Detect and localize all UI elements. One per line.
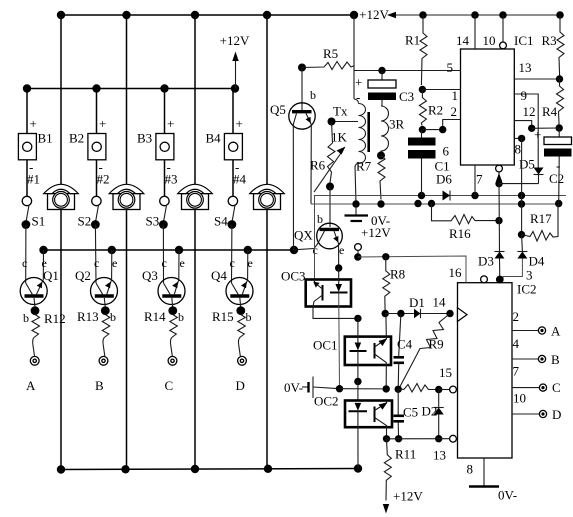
svg-text:B2: B2	[69, 131, 84, 146]
svg-text:+12V: +12V	[393, 489, 423, 504]
capacitor C3	[368, 71, 396, 107]
svg-text:Q4: Q4	[211, 268, 227, 283]
svg-text:B: B	[95, 378, 104, 393]
transistor Q4	[226, 225, 253, 316]
svg-text:10: 10	[513, 391, 526, 406]
svg-text:+12V: +12V	[361, 225, 391, 240]
battery B3 branch	[156, 89, 174, 197]
svg-text:R15: R15	[212, 309, 234, 324]
transistor Q2	[91, 225, 118, 316]
svg-text:R12: R12	[44, 311, 66, 326]
svg-text:Q2: Q2	[75, 268, 91, 283]
IC1 pin 12 wire	[514, 121, 535, 132]
capacitor C1	[408, 130, 436, 196]
transformer Tx primary	[355, 104, 366, 204]
telephone 3	[178, 184, 213, 209]
svg-text:b: b	[110, 310, 116, 324]
svg-text:R2: R2	[428, 103, 443, 118]
svg-text:Tx: Tx	[333, 104, 348, 119]
svg-text:4: 4	[513, 336, 520, 351]
svg-text:S1: S1	[32, 214, 46, 229]
capacitor C2	[544, 128, 572, 204]
resistor R5	[302, 62, 355, 70]
IC1 pin 13 wire	[514, 78, 559, 80]
svg-text:b: b	[317, 212, 323, 226]
svg-text:OC1: OC1	[313, 338, 338, 353]
svg-text:14: 14	[456, 33, 470, 48]
svg-text:R17: R17	[530, 211, 552, 226]
svg-text:Q5: Q5	[270, 102, 286, 117]
wire top rail right section with left arrow	[387, 11, 564, 19]
svg-text:B3: B3	[137, 131, 152, 146]
svg-text:D: D	[236, 378, 245, 393]
svg-text:S4: S4	[214, 214, 228, 229]
svg-text:6: 6	[443, 144, 450, 159]
svg-text:B4: B4	[206, 131, 222, 146]
svg-text:C2: C2	[549, 171, 564, 186]
switch S2	[91, 196, 101, 229]
transformer Tx secondary	[377, 106, 389, 160]
transistor Q3	[158, 225, 185, 316]
wire pin15 row	[340, 385, 402, 393]
transistor QX	[294, 187, 342, 272]
wire +12V drop to R5 junction and transformer	[354, 15, 359, 104]
svg-text:0V-: 0V-	[498, 488, 517, 503]
svg-text:5: 5	[447, 60, 454, 75]
telephone 4	[250, 184, 285, 209]
wire D1 row	[382, 310, 415, 317]
svg-text:c: c	[162, 256, 167, 270]
diode D5	[534, 168, 544, 184]
ground symbol on bus2	[345, 204, 369, 221]
diode D3	[495, 252, 505, 280]
svg-text:R16: R16	[449, 226, 471, 241]
svg-text:c: c	[22, 256, 27, 270]
battery B2 branch	[88, 89, 106, 197]
svg-text:b: b	[23, 311, 29, 325]
svg-text:13: 13	[519, 60, 532, 75]
switch S3	[159, 196, 169, 229]
svg-text:R9: R9	[429, 337, 444, 352]
battery B4 branch	[224, 89, 242, 197]
IC2 pin14 triangle	[458, 308, 468, 322]
terminal C	[168, 356, 177, 365]
svg-text:+: +	[30, 116, 37, 131]
resistor R13	[102, 315, 110, 357]
Tx centre tap	[328, 118, 359, 126]
battery B1 branch	[18, 89, 36, 197]
svg-text:QX: QX	[294, 228, 313, 243]
svg-text:0V-: 0V-	[284, 380, 303, 395]
svg-text:c: c	[230, 256, 235, 270]
switch S1	[22, 196, 32, 229]
wire emitter rail y250	[39, 246, 298, 254]
telephone 2 branch wire	[126, 15, 128, 185]
OC3 LED	[330, 268, 348, 389]
IC1 box	[461, 49, 515, 165]
resistor R14	[170, 315, 178, 357]
svg-text:R6: R6	[310, 158, 326, 173]
svg-text:b: b	[178, 310, 184, 324]
IC1 pin 9 wire	[514, 94, 538, 168]
telephone 4 branch wire	[266, 15, 268, 185]
optocoupler OC1 box	[345, 337, 391, 365]
svg-text:+: +	[99, 116, 106, 131]
svg-text:A: A	[551, 324, 561, 339]
svg-text:2: 2	[513, 309, 520, 324]
svg-text:IC1: IC1	[514, 33, 534, 48]
IC2 pin8 ground	[469, 458, 499, 487]
svg-text:+12V: +12V	[220, 33, 250, 48]
IC2 pin4 wire + terminal B	[512, 355, 546, 362]
optocoupler OC3 box	[306, 280, 351, 307]
svg-text:R7: R7	[356, 159, 372, 174]
svg-text:+: +	[355, 75, 362, 90]
IC2 pin2 wire + terminal A	[512, 327, 546, 334]
svg-text:OC3: OC3	[281, 269, 306, 284]
wire pin5 line to IC1	[355, 67, 461, 74]
terminal A	[30, 356, 39, 365]
svg-text:e: e	[112, 256, 117, 270]
IC1 pin 14 wire	[474, 15, 476, 49]
svg-text:+: +	[236, 116, 243, 131]
resistor R11	[383, 439, 392, 514]
resistor R3	[556, 15, 564, 83]
svg-text:C: C	[165, 378, 174, 393]
svg-text:C: C	[552, 380, 561, 395]
svg-text:A: A	[26, 378, 36, 393]
OC1 phototransistor	[375, 314, 388, 389]
svg-text:D: D	[552, 407, 561, 422]
IC2 pin16 stub	[465, 256, 467, 283]
wire top +12V rail left section	[57, 11, 358, 19]
svg-text:12: 12	[523, 104, 536, 119]
IC1 pin 11 circle and link	[495, 165, 538, 187]
svg-text:#2: #2	[97, 172, 110, 187]
IC2 pin15 circle	[450, 386, 457, 393]
svg-text:#4: #4	[233, 172, 247, 187]
svg-text:1: 1	[452, 88, 459, 103]
IC2 pin7 wire + terminal C	[512, 384, 547, 391]
diode D2	[434, 390, 444, 439]
svg-text:c: c	[313, 243, 318, 257]
rheostat R6 (1K)	[314, 122, 346, 193]
+12V terminal circle near QX	[354, 244, 361, 261]
telephone 3 branch wire	[194, 15, 196, 185]
diode D6 on bus1	[443, 191, 451, 201]
svg-text:#3: #3	[165, 172, 178, 187]
resistor R9 diagonal	[399, 314, 450, 389]
svg-text:1K: 1K	[331, 130, 348, 145]
resistor R2	[419, 90, 427, 134]
svg-text:8: 8	[467, 462, 474, 477]
resistor R12	[32, 315, 40, 357]
svg-text:+: +	[534, 127, 541, 142]
svg-text:b: b	[310, 88, 316, 102]
svg-text:#1: #1	[27, 172, 40, 187]
svg-text:C3: C3	[399, 89, 414, 104]
switch S4	[228, 196, 238, 229]
resistor R4	[556, 79, 564, 132]
0V- cell symbol	[302, 377, 343, 399]
svg-text:c: c	[94, 256, 99, 270]
wire pin1 IC1	[422, 89, 460, 91]
resistor R1	[419, 15, 427, 93]
svg-text:D2: D2	[422, 404, 438, 419]
svg-text:e: e	[339, 243, 344, 257]
svg-text:D6: D6	[436, 172, 452, 187]
resistor R15	[238, 315, 246, 357]
resistor R7	[378, 156, 385, 200]
svg-text:C5: C5	[403, 405, 418, 420]
svg-text:IC2: IC2	[517, 282, 537, 297]
IC1 pin 10 wire with circle	[500, 15, 507, 49]
transistor Q1	[20, 225, 47, 316]
svg-text:Q3: Q3	[142, 268, 158, 283]
svg-text:8: 8	[515, 142, 522, 157]
svg-text:10: 10	[483, 33, 496, 48]
optocoupler OC2 box	[345, 401, 392, 428]
telephone 1	[44, 184, 79, 209]
wire +12V bus (bus2)	[311, 200, 562, 208]
svg-text:3R: 3R	[389, 117, 405, 132]
svg-text:14: 14	[433, 295, 447, 310]
wire pin8 vertical	[518, 138, 525, 238]
svg-text:9: 9	[521, 88, 528, 103]
svg-text:C4: C4	[397, 337, 413, 352]
diode D4	[503, 235, 527, 280]
resistor R17	[522, 204, 559, 241]
IC2 pin13 circle	[450, 435, 457, 442]
IC2 pin10 wire + terminal D	[512, 410, 547, 417]
OC3 phototransistor	[313, 280, 323, 307]
OC2 LED	[349, 403, 368, 469]
IC2 box	[458, 283, 513, 458]
svg-text:D1: D1	[409, 295, 425, 310]
svg-text:R8: R8	[390, 267, 405, 282]
svg-text:B: B	[551, 352, 560, 367]
terminal B	[99, 356, 108, 365]
IC2 top circle pin	[481, 276, 488, 283]
wire pin13 row	[383, 435, 450, 442]
svg-text:S3: S3	[146, 214, 160, 229]
wire 16 line from pin16 to R8 node	[358, 253, 466, 283]
svg-text:15: 15	[439, 365, 452, 380]
svg-text:R4: R4	[542, 104, 558, 119]
svg-text:e: e	[248, 256, 253, 270]
OC1 LED	[350, 318, 367, 400]
wire pin12 to R4 node	[532, 127, 560, 129]
svg-text:Q1: Q1	[43, 268, 59, 283]
telephone 2	[109, 184, 144, 209]
svg-text:+12V: +12V	[359, 7, 389, 22]
wire bottom rail	[57, 464, 362, 473]
svg-text:OC2: OC2	[314, 394, 339, 409]
svg-text:2: 2	[451, 104, 458, 119]
capacitor C4	[394, 314, 405, 390]
svg-text:R1: R1	[405, 33, 420, 48]
+12V up arrow above battery rail	[232, 52, 238, 89]
svg-text:C1: C1	[435, 159, 450, 174]
svg-text:16: 16	[449, 265, 463, 280]
svg-text:7: 7	[513, 364, 520, 379]
diode D1	[414, 309, 454, 318]
wire D3 node vertical	[498, 184, 501, 252]
IC1 pin 7 wire	[474, 165, 476, 196]
resistor R16	[432, 204, 503, 225]
transistor Q5	[289, 64, 315, 251]
wire 0V bus (bus1)	[315, 192, 567, 280]
svg-text:e: e	[180, 256, 185, 270]
OC2 phototransistor	[375, 401, 388, 439]
svg-text:R11: R11	[395, 447, 416, 462]
telephone 1 branch wire	[60, 15, 62, 185]
capacitor C5	[394, 389, 405, 439]
svg-text:7: 7	[476, 172, 483, 187]
svg-text:D3: D3	[478, 254, 494, 269]
svg-text:-: -	[356, 90, 360, 105]
IC2 top dot pin (D3/D4)	[496, 276, 504, 284]
svg-text:R5: R5	[323, 46, 338, 61]
svg-text:R13: R13	[77, 309, 99, 324]
wire OC3 emitter to OC1 anode node	[313, 307, 362, 323]
svg-text:R14: R14	[144, 309, 166, 324]
IC1 pin 8 wire	[514, 135, 525, 142]
resistor R8	[383, 257, 390, 315]
svg-text:+: +	[167, 116, 174, 131]
svg-text:13: 13	[433, 448, 446, 463]
wire second rail (battery rail)	[23, 84, 239, 92]
svg-text:B1: B1	[38, 131, 53, 146]
resistor R10 on pin15 row	[398, 384, 449, 394]
svg-text:S2: S2	[78, 214, 92, 229]
wire pin2 IC1	[422, 120, 460, 134]
svg-text:3: 3	[526, 268, 533, 283]
svg-text:R3: R3	[542, 33, 557, 48]
svg-text:D4: D4	[529, 254, 545, 269]
terminal D	[238, 356, 247, 365]
transformer core	[367, 112, 370, 152]
svg-text:b: b	[246, 310, 252, 324]
